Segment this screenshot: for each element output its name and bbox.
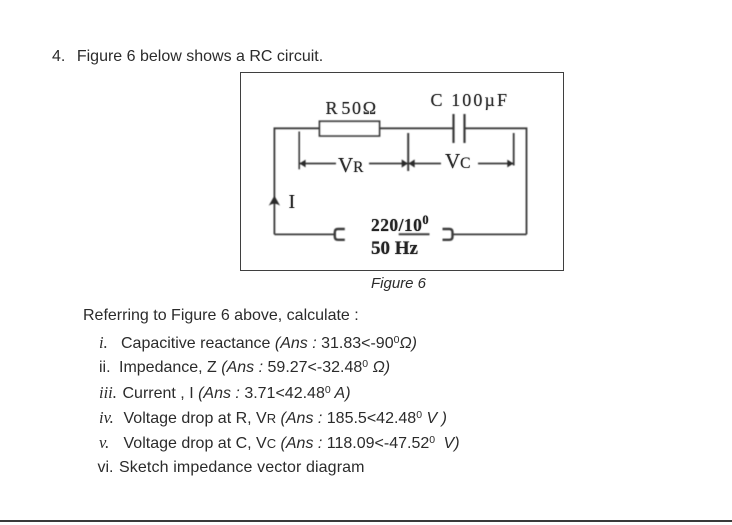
node tick left (VR start): [298, 132, 300, 170]
item iv: [99, 410, 447, 428]
label VC: [445, 151, 471, 174]
VC dimension arrow line: [408, 163, 441, 165]
label R 50ohm: [326, 99, 378, 117]
wire bottom left segment: [274, 233, 334, 235]
current I arrowhead on left wire: [269, 196, 280, 206]
source terminal right (reversed c): [443, 229, 453, 240]
label source frequency 50 Hz: [371, 239, 418, 258]
item v: [99, 435, 460, 453]
node tick right (VC end): [513, 133, 515, 166]
label source value 220/10^0: [371, 217, 429, 237]
VR arrowhead right: [402, 159, 408, 167]
VC arrowhead left: [409, 159, 415, 167]
label I: [289, 192, 296, 212]
source terminal left (c): [335, 229, 345, 240]
wire bottom right segment: [453, 233, 527, 235]
capacitor C1 plates: [452, 114, 454, 143]
VR dimension arrow line: [299, 163, 336, 165]
paragraph: referring line: [83, 308, 359, 324]
VR arrowhead left: [299, 160, 305, 168]
phasor underline under 10^0: [399, 233, 430, 235]
circuit figure box: [240, 72, 565, 272]
heading line: question text: [52, 49, 323, 65]
node tick middle (VR/VC junction): [407, 133, 409, 171]
VC arrowhead right: [507, 160, 513, 168]
bottom rule: [0, 520, 732, 523]
item iii: [99, 385, 351, 403]
label VR: [338, 155, 364, 178]
wire resistor to capacitor: [380, 127, 454, 129]
label C 100uF: [431, 91, 510, 109]
item i: [99, 335, 417, 353]
item ii: [99, 360, 390, 377]
wire capacitor to right corner and right side down: [465, 128, 527, 234]
item vi: [98, 460, 365, 476]
wire top-left horizontal: [274, 128, 319, 234]
caption Figure 6: [371, 275, 426, 292]
resistor R1 body: [320, 121, 380, 136]
